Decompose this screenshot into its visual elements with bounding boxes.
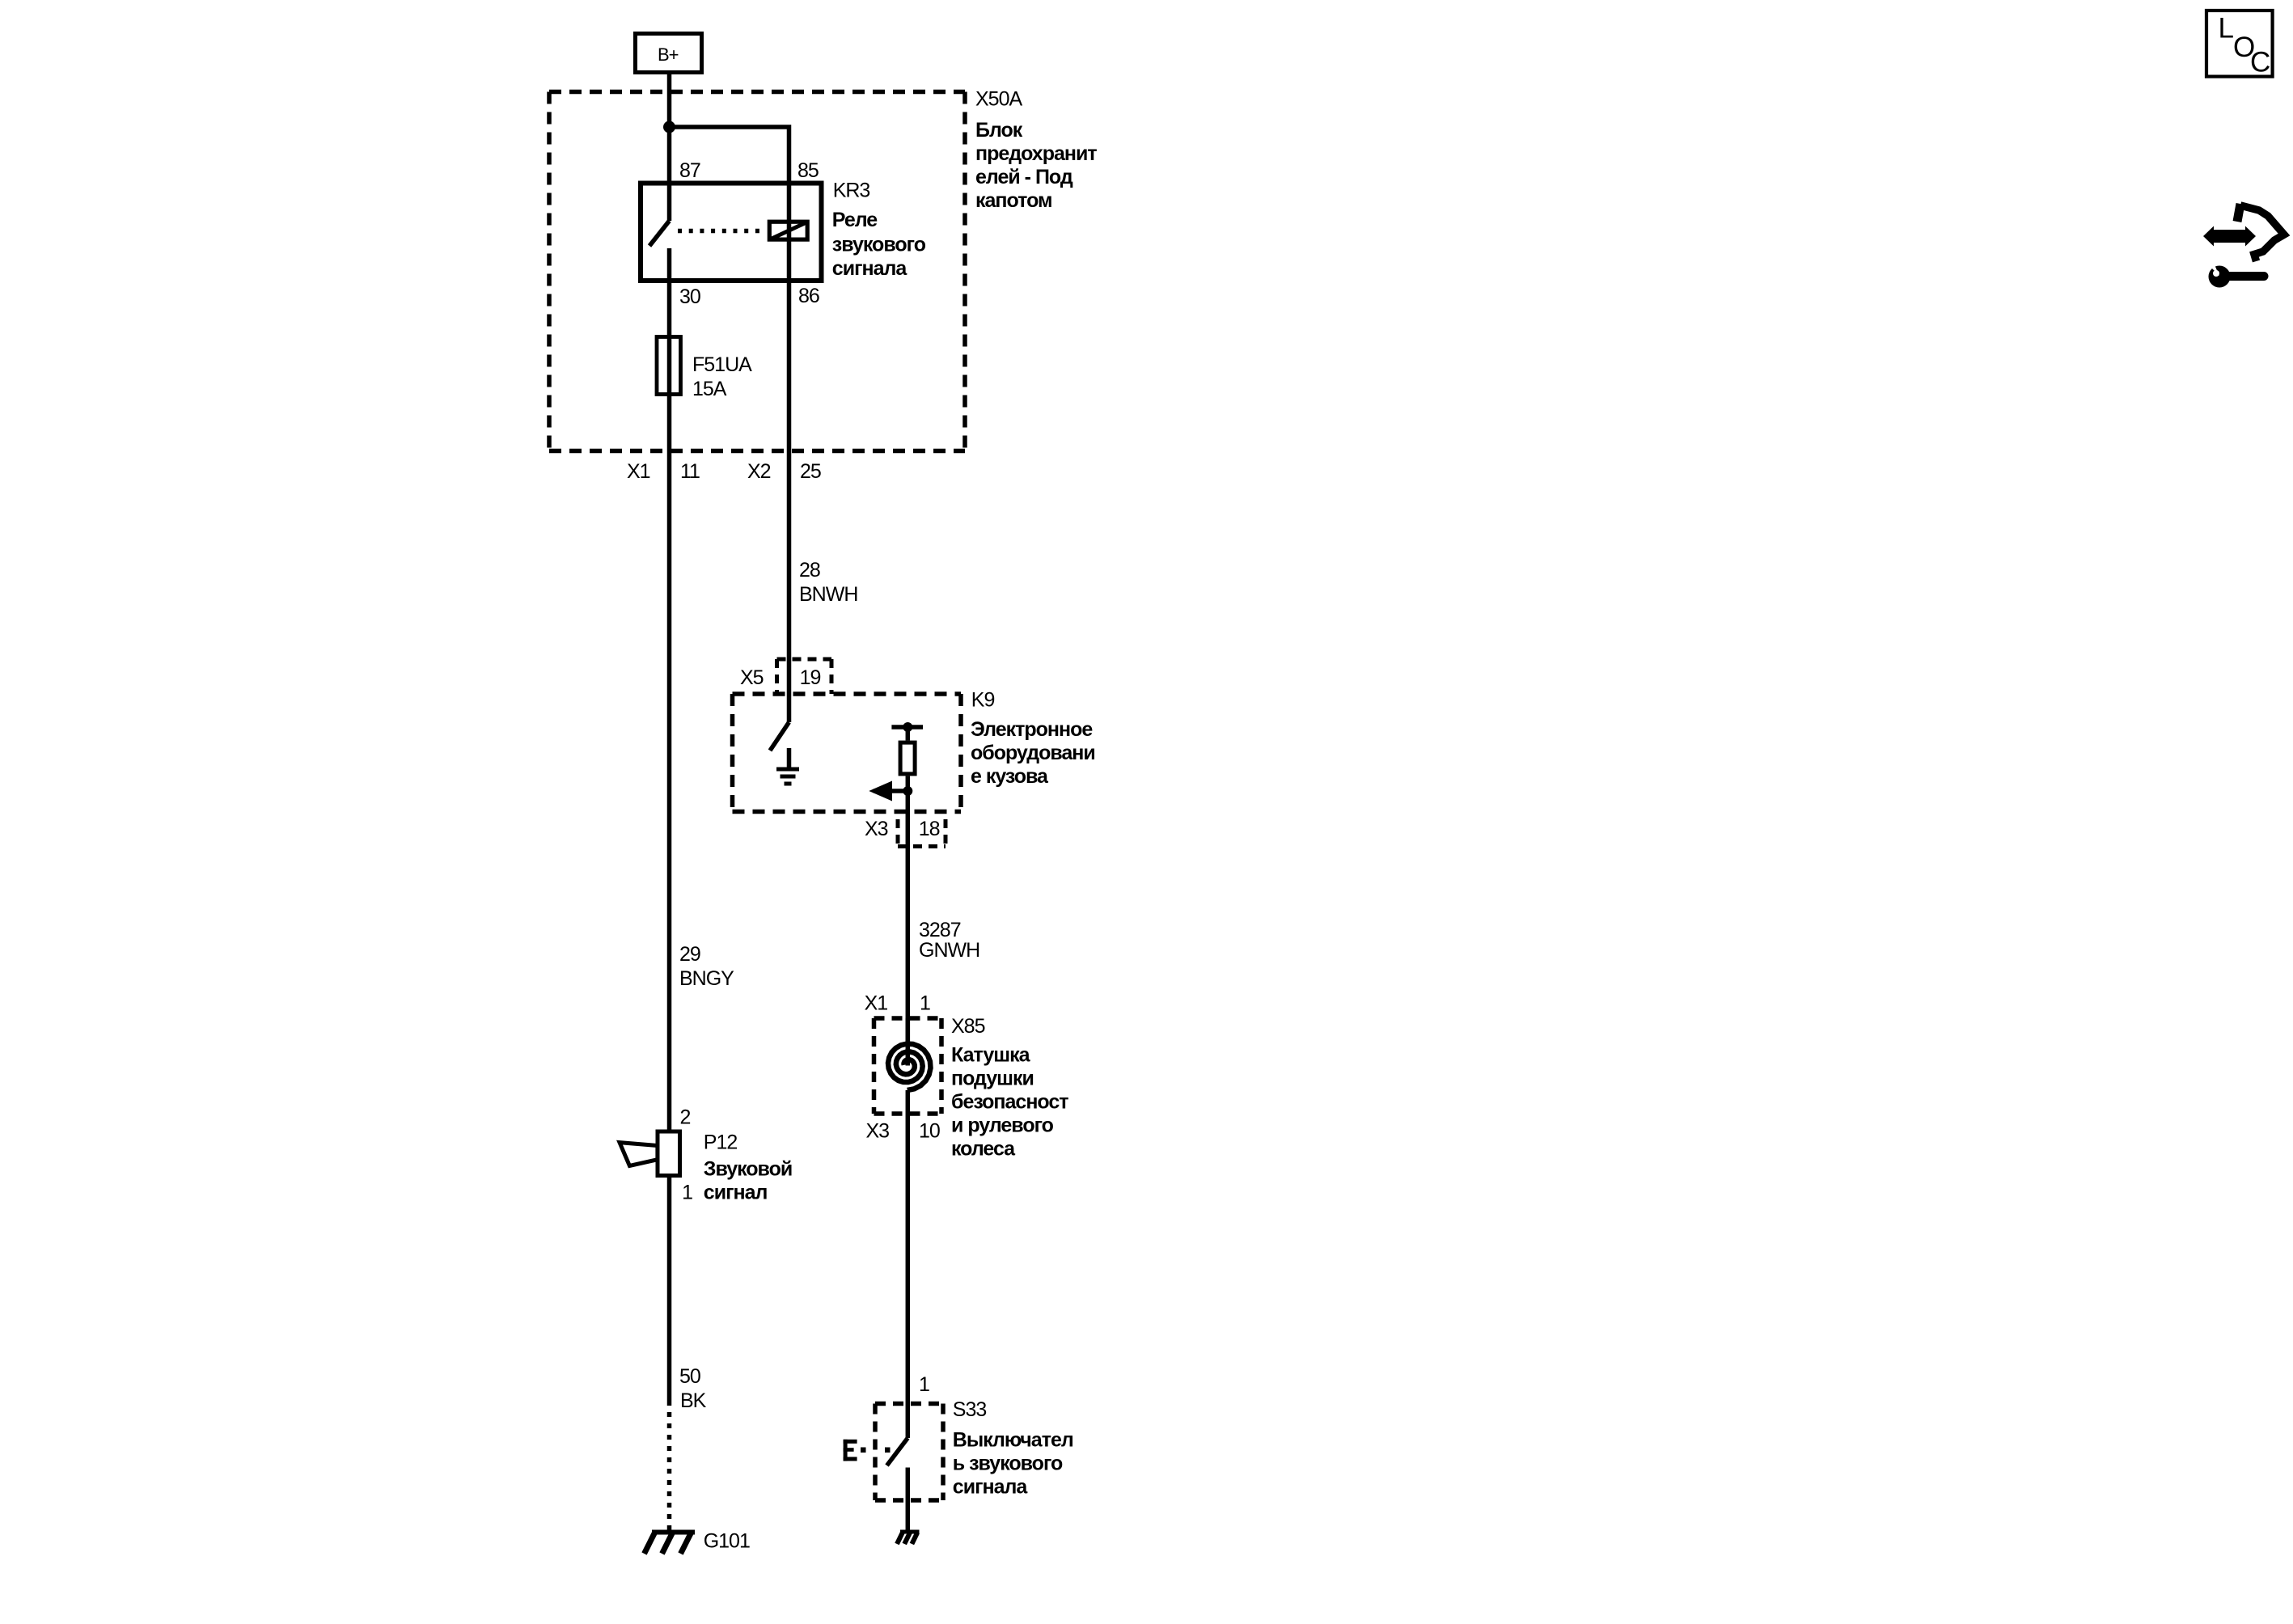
svg-text:F51UA: F51UA	[692, 353, 752, 376]
K9 internal resistor	[900, 742, 915, 774]
svg-text:X5: X5	[740, 666, 764, 689]
wire 29 BNGY: relay pin 30 through fuse F51UA and X1-11 to horn P12	[667, 248, 672, 1131]
horn switch S33 dashed box	[875, 1404, 943, 1501]
svg-text:85: 85	[797, 159, 819, 182]
K9 switch lower stub	[787, 748, 792, 769]
svg-text:P12: P12	[704, 1131, 738, 1153]
svg-text:10: 10	[919, 1119, 940, 1142]
svg-text:B+: B+	[658, 44, 679, 65]
wire B+ to fuse block	[667, 73, 672, 127]
E horn press symbol	[844, 1440, 857, 1461]
arrow line	[874, 789, 907, 793]
svg-text:86: 86	[798, 285, 819, 307]
connector X5-19	[777, 659, 832, 694]
svg-text:X1: X1	[627, 460, 650, 483]
svg-text:3287: 3287	[919, 919, 961, 941]
junction node	[663, 121, 675, 133]
svg-text:X50A: X50A	[975, 88, 1022, 111]
label K9 name	[971, 718, 1095, 788]
svg-text:G101: G101	[704, 1530, 750, 1553]
svg-text:2: 2	[680, 1106, 691, 1129]
svg-text:K9: K9	[971, 688, 995, 711]
svg-text:L: L	[2219, 13, 2234, 44]
svg-text:елей - Под: елей - Под	[975, 166, 1073, 188]
svg-text:Выключател: Выключател	[953, 1428, 1073, 1451]
fuse F51UA	[657, 337, 681, 395]
svg-text:1: 1	[920, 992, 930, 1015]
svg-text:Реле: Реле	[832, 209, 878, 231]
K9 switch blade	[770, 722, 789, 751]
svg-text:безопасност: безопасност	[951, 1091, 1068, 1114]
svg-text:KR3: KR3	[833, 180, 870, 202]
svg-text:BK: BK	[680, 1389, 707, 1412]
svg-text:ь звукового: ь звукового	[953, 1452, 1063, 1474]
wire horn down	[667, 1176, 672, 1402]
svg-text:S33: S33	[953, 1398, 987, 1421]
fuse block X50A dashed box	[549, 92, 965, 451]
svg-text:предохранит: предохранит	[975, 142, 1097, 165]
svg-text:87: 87	[679, 159, 700, 182]
svg-text:Катушка: Катушка	[951, 1044, 1031, 1067]
K9 internal T bar	[891, 725, 923, 730]
relay dotted actuation link	[678, 229, 765, 234]
label S33 name	[953, 1428, 1073, 1498]
svg-text:50: 50	[679, 1365, 700, 1388]
svg-text:25: 25	[800, 460, 821, 483]
dotted wire to G101	[667, 1401, 672, 1530]
svg-text:1: 1	[919, 1373, 929, 1396]
svg-text:18: 18	[919, 818, 940, 840]
svg-text:сигнала: сигнала	[832, 257, 908, 280]
relay KR3 box	[641, 184, 822, 281]
svg-text:Звуковой: Звуковой	[704, 1158, 792, 1181]
svg-text:оборудовани: оборудовани	[971, 742, 1095, 764]
svg-text:подушки: подушки	[951, 1068, 1034, 1090]
navigation icon curved arrow	[2237, 204, 2284, 261]
svg-text:15A: 15A	[692, 378, 727, 400]
svg-text:BNWH: BNWH	[799, 583, 857, 606]
chassis ground below S33	[897, 1532, 920, 1544]
svg-text:Электронное: Электронное	[971, 718, 1093, 741]
navigation icon wrench	[2207, 261, 2264, 288]
svg-text:30: 30	[679, 285, 700, 308]
svg-text:сигнала: сигнала	[953, 1475, 1029, 1498]
clockspring spiral coil	[906, 1018, 911, 1066]
label fuse block name	[975, 119, 1097, 212]
S33 switch blade	[887, 1438, 908, 1465]
relay coil	[769, 222, 807, 239]
svg-text:GNWH: GNWH	[919, 939, 979, 962]
svg-text:е кузова: е кузова	[971, 765, 1049, 788]
svg-text:1: 1	[682, 1181, 692, 1203]
wire branch to relay coil	[670, 127, 789, 181]
junction dot arrow	[903, 786, 912, 796]
navigation icon double arrow	[2203, 226, 2256, 247]
body module K9 dashed box	[733, 694, 962, 812]
svg-text:X3: X3	[866, 1119, 890, 1142]
LOC legend box	[2206, 11, 2273, 78]
svg-text:29: 29	[679, 943, 700, 966]
svg-text:X1: X1	[865, 992, 888, 1015]
E dash-dot link	[861, 1448, 891, 1453]
label relay name	[832, 209, 926, 280]
svg-text:19: 19	[800, 666, 821, 689]
K9 internal earth ground	[776, 769, 799, 784]
svg-text:X85: X85	[951, 1015, 985, 1038]
svg-text:и рулевого: и рулевого	[951, 1114, 1054, 1137]
wire resistor down through X3-18 to X85	[906, 776, 911, 1043]
horn P12	[620, 1131, 680, 1176]
svg-text:звукового: звукового	[832, 234, 926, 256]
label X85 name	[951, 1044, 1068, 1161]
stub T bar to resistor	[906, 727, 911, 741]
svg-text:28: 28	[799, 559, 820, 582]
junction dot on T bar	[903, 722, 912, 732]
wire X85 down to S33	[906, 1090, 911, 1438]
arrow head	[869, 781, 892, 801]
wire 28 BNWH: relay coil pin 85 to pin 86, X2-25 and K9 switch	[787, 181, 792, 722]
svg-text:сигнал: сигнал	[704, 1182, 768, 1204]
svg-text:X2: X2	[747, 460, 771, 483]
wire junction down to relay switch	[667, 127, 672, 221]
ground G101	[645, 1532, 696, 1554]
airbag coil X85 dashed box	[874, 1018, 942, 1114]
S33 switch lower stub to ground	[906, 1468, 911, 1532]
svg-text:11: 11	[680, 460, 700, 483]
label P12 name	[704, 1158, 792, 1204]
svg-text:колеса: колеса	[951, 1138, 1016, 1161]
connector X3-18	[898, 819, 946, 847]
relay switch blade	[649, 221, 670, 246]
svg-text:капотом: капотом	[975, 189, 1052, 212]
svg-text:BNGY: BNGY	[679, 967, 734, 990]
svg-text:Блок: Блок	[975, 119, 1023, 142]
svg-text:X3: X3	[865, 818, 888, 840]
node B+ power box	[636, 34, 702, 73]
svg-text:C: C	[2250, 47, 2270, 78]
